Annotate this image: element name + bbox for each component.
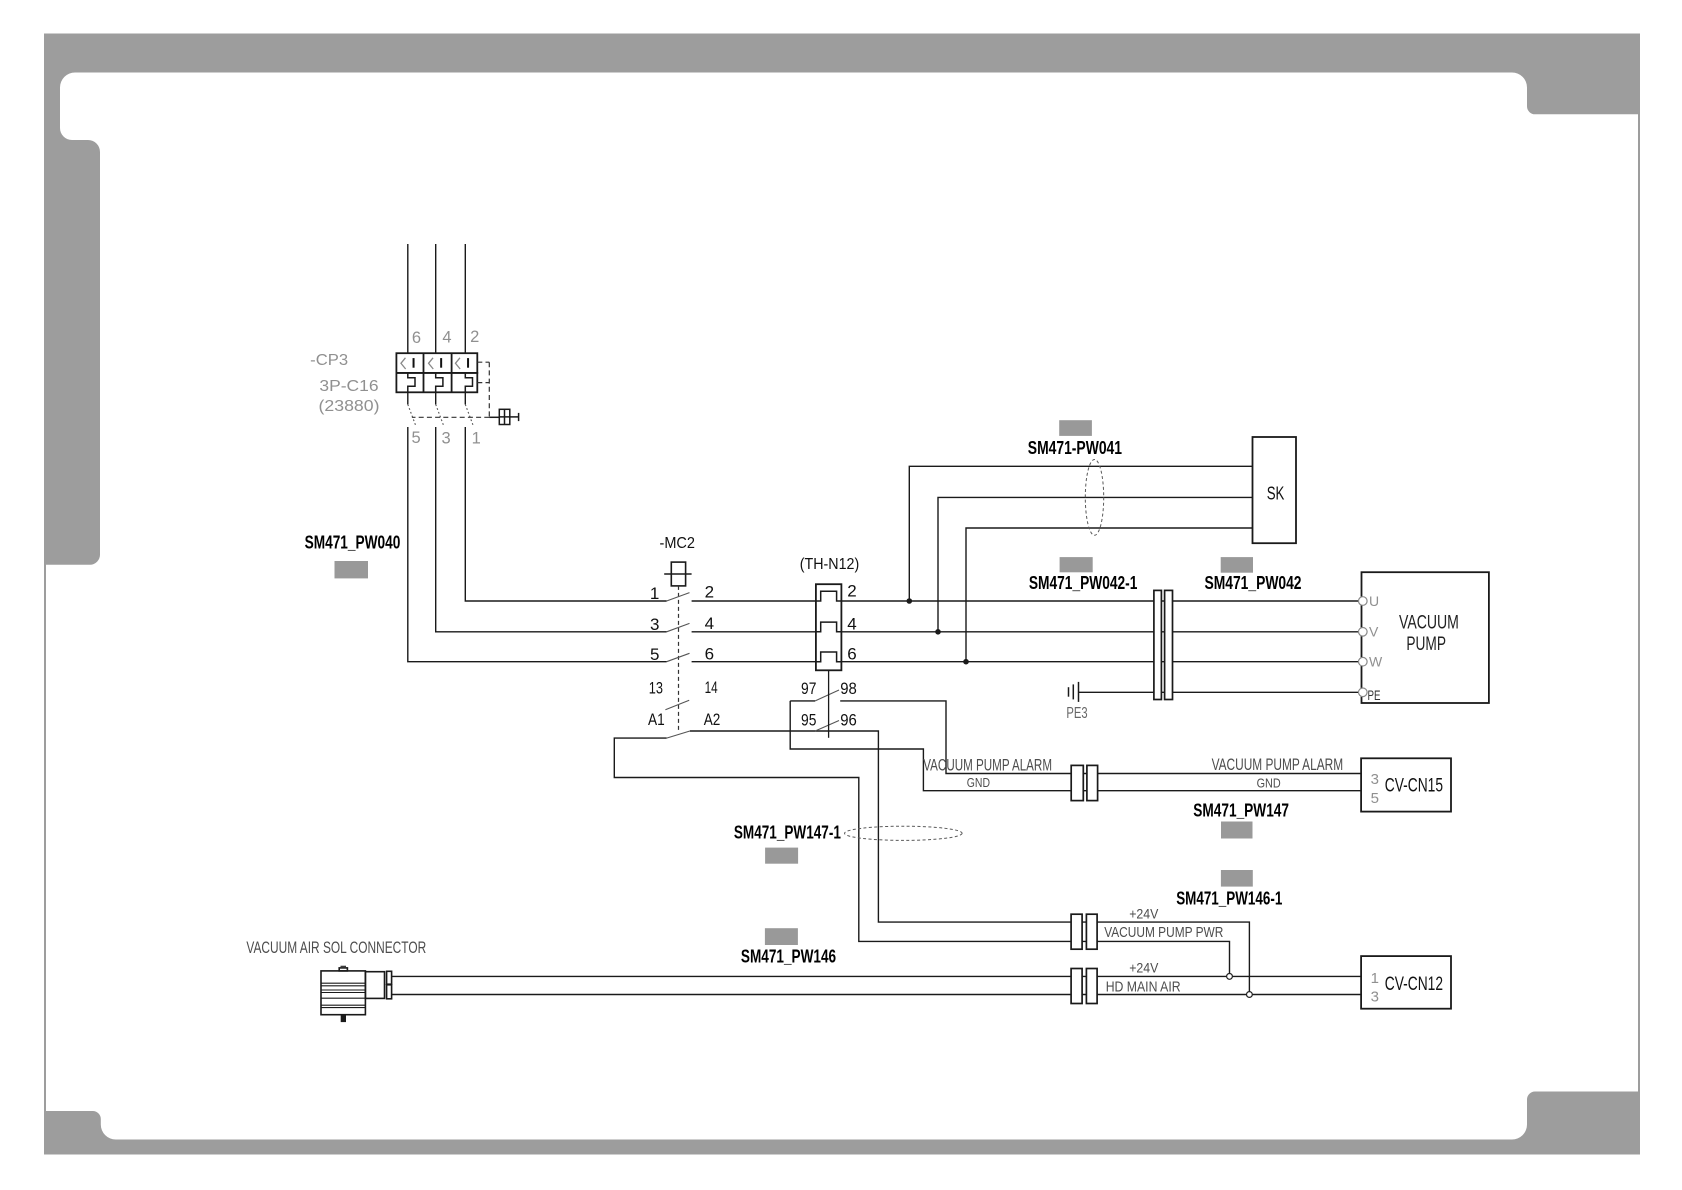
svg-text:VACUUM AIR SOL CONNECTOR: VACUUM AIR SOL CONNECTOR bbox=[246, 939, 426, 957]
svg-text:+24V: +24V bbox=[1129, 906, 1159, 922]
svg-text:CV-CN15: CV-CN15 bbox=[1385, 776, 1443, 797]
svg-text:14: 14 bbox=[705, 678, 718, 697]
svg-text:VACUUM PUMP ALARM: VACUUM PUMP ALARM bbox=[923, 757, 1052, 775]
svg-text:VACUUM: VACUUM bbox=[1399, 613, 1459, 634]
svg-text:1: 1 bbox=[650, 584, 659, 603]
svg-text:3: 3 bbox=[1371, 771, 1379, 788]
svg-text:6: 6 bbox=[412, 329, 421, 347]
svg-text:98: 98 bbox=[840, 679, 857, 698]
svg-text:HD MAIN AIR: HD MAIN AIR bbox=[1106, 978, 1181, 995]
svg-text:(23880): (23880) bbox=[319, 398, 380, 415]
svg-text:U: U bbox=[1369, 593, 1379, 609]
svg-text:SM471_PW042: SM471_PW042 bbox=[1205, 573, 1302, 593]
svg-text:-MC2: -MC2 bbox=[660, 535, 696, 552]
svg-text:A1: A1 bbox=[648, 710, 665, 729]
svg-text:6: 6 bbox=[705, 645, 714, 664]
svg-text:SM471_PW040: SM471_PW040 bbox=[305, 533, 401, 553]
svg-text:V: V bbox=[1369, 624, 1379, 640]
svg-text:5: 5 bbox=[1371, 790, 1379, 807]
svg-text:SK: SK bbox=[1267, 484, 1285, 504]
svg-text:PE: PE bbox=[1368, 687, 1381, 703]
svg-text:5: 5 bbox=[650, 645, 659, 664]
svg-text:SM471_PW147: SM471_PW147 bbox=[1193, 801, 1289, 821]
svg-text:W: W bbox=[1369, 654, 1383, 670]
svg-text:1: 1 bbox=[472, 430, 481, 448]
svg-text:-CP3: -CP3 bbox=[310, 352, 348, 369]
svg-text:97: 97 bbox=[801, 679, 816, 698]
svg-text:2: 2 bbox=[847, 582, 856, 601]
svg-text:SM471_PW147-1: SM471_PW147-1 bbox=[734, 823, 841, 843]
svg-text:13: 13 bbox=[649, 679, 663, 698]
svg-text:6: 6 bbox=[847, 645, 856, 664]
svg-text:4: 4 bbox=[705, 614, 714, 633]
svg-text:A2: A2 bbox=[704, 710, 721, 729]
svg-text:3: 3 bbox=[650, 615, 659, 634]
svg-text:SM471_PW146-1: SM471_PW146-1 bbox=[1176, 889, 1282, 909]
svg-text:(TH-N12): (TH-N12) bbox=[800, 556, 859, 573]
svg-text:SM471_PW146: SM471_PW146 bbox=[741, 947, 836, 967]
svg-text:96: 96 bbox=[840, 710, 857, 729]
svg-text:GND: GND bbox=[967, 776, 990, 790]
svg-text:2: 2 bbox=[705, 583, 714, 602]
svg-text:SM471_PW042-1: SM471_PW042-1 bbox=[1029, 573, 1138, 593]
svg-text:PUMP: PUMP bbox=[1406, 634, 1446, 655]
svg-text:SM471-PW041: SM471-PW041 bbox=[1028, 438, 1122, 458]
svg-text:5: 5 bbox=[412, 429, 421, 447]
svg-text:3: 3 bbox=[1371, 989, 1379, 1006]
svg-text:CV-CN12: CV-CN12 bbox=[1385, 974, 1443, 995]
svg-text:PE3: PE3 bbox=[1066, 705, 1087, 722]
svg-text:VACUUM PUMP ALARM: VACUUM PUMP ALARM bbox=[1212, 756, 1344, 774]
svg-text:GND: GND bbox=[1257, 776, 1281, 790]
svg-text:VACUUM PUMP PWR: VACUUM PUMP PWR bbox=[1104, 924, 1223, 941]
svg-text:95: 95 bbox=[801, 710, 816, 729]
svg-text:3: 3 bbox=[442, 429, 451, 447]
svg-text:4: 4 bbox=[847, 615, 856, 634]
svg-text:4: 4 bbox=[442, 328, 451, 346]
svg-text:+24V: +24V bbox=[1129, 960, 1159, 976]
svg-text:3P-C16: 3P-C16 bbox=[319, 378, 378, 395]
svg-text:2: 2 bbox=[470, 328, 479, 346]
svg-text:1: 1 bbox=[1371, 970, 1379, 987]
